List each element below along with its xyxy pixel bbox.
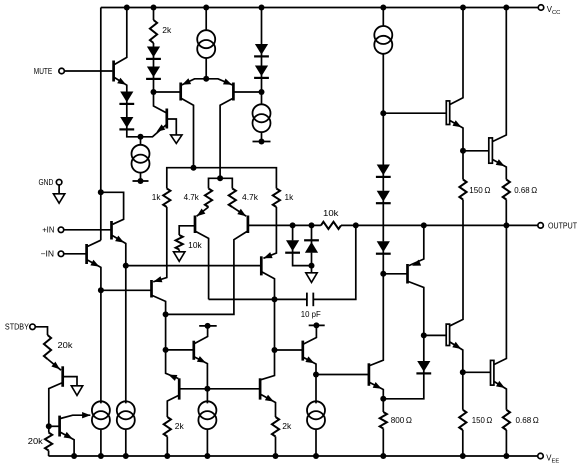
- svg-text:−IN: −IN: [41, 250, 55, 259]
- svg-text:+IN: +IN: [42, 226, 54, 235]
- svg-text:20k: 20k: [28, 437, 44, 446]
- svg-text:10k: 10k: [188, 241, 203, 250]
- svg-text:1k: 1k: [285, 193, 295, 202]
- svg-text:2k: 2k: [175, 422, 185, 431]
- svg-text:OUTPUT: OUTPUT: [548, 221, 577, 230]
- svg-text:10 pF: 10 pF: [301, 310, 321, 319]
- svg-text:800 Ω: 800 Ω: [391, 416, 412, 425]
- svg-text:20k: 20k: [58, 341, 74, 350]
- svg-text:1k: 1k: [152, 193, 162, 202]
- svg-text:4.7k: 4.7k: [242, 193, 259, 202]
- svg-text:MUTE: MUTE: [34, 67, 53, 76]
- svg-text:150 Ω: 150 Ω: [472, 416, 493, 425]
- svg-text:4.7k: 4.7k: [184, 193, 200, 202]
- svg-text:GND: GND: [39, 178, 54, 187]
- svg-text:150 Ω: 150 Ω: [469, 186, 490, 195]
- svg-text:STDBY: STDBY: [5, 323, 30, 332]
- svg-text:0.68 Ω: 0.68 Ω: [514, 186, 537, 195]
- svg-text:10k: 10k: [323, 209, 340, 218]
- svg-text:0.68 Ω: 0.68 Ω: [516, 416, 539, 425]
- svg-text:2k: 2k: [282, 422, 292, 431]
- svg-text:2k: 2k: [162, 26, 172, 35]
